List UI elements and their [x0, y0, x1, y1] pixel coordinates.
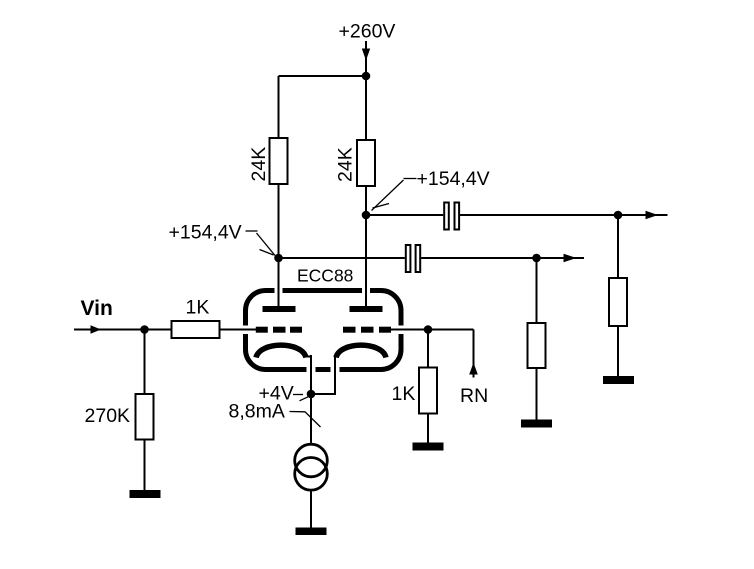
resistor 1K input body — [172, 321, 220, 338]
resistor 270K body — [136, 394, 154, 440]
envelope gap right grid wire — [396, 326, 406, 335]
wire right 24K branch upper — [365, 76, 367, 140]
capacitor C2 left plate — [406, 245, 411, 272]
capacitor C2 right plate — [416, 245, 421, 272]
wire right 24K branch lower to right anode — [365, 186, 367, 307]
leader +4V — [293, 394, 303, 396]
capacitor C1 right plate — [455, 203, 460, 230]
wire 1K cathode resistor lower — [427, 414, 429, 444]
ground 270K — [130, 490, 161, 498]
ground current source — [296, 528, 327, 536]
wire cathode node to current source — [310, 394, 312, 446]
wire output 2 right segment — [421, 257, 584, 259]
resistor 24K right body — [357, 140, 375, 186]
wire middle load resistor drop lower — [536, 368, 538, 420]
arrowhead RN up — [469, 363, 478, 375]
arrowhead output 1 — [646, 211, 659, 220]
wire left cathode tail connector — [303, 356, 311, 358]
envelope gap bottom right cathode tail — [331, 365, 340, 375]
wire 270K branch upper — [144, 330, 146, 395]
node input junction — [140, 325, 149, 334]
resistor 1K cathode body — [419, 368, 437, 414]
svg-text:RN: RN — [460, 385, 488, 407]
resistor middle load body — [528, 323, 546, 368]
resistor 24K left body — [270, 138, 288, 184]
wire 1K cathode resistor upper — [427, 330, 429, 369]
envelope gap bottom left cathode tail — [307, 365, 316, 375]
wire output 1 left segment — [366, 214, 443, 216]
wire right cathode tail — [311, 356, 335, 394]
leader +154,4V right — [372, 179, 417, 211]
right anode plate — [350, 306, 383, 312]
svg-text:+260V: +260V — [339, 21, 396, 43]
node cathode junction — [307, 390, 316, 399]
wire 270K branch lower — [144, 440, 146, 492]
wire left cathode tail — [310, 355, 312, 394]
ground right load — [603, 376, 634, 384]
left anode plate — [263, 306, 296, 312]
svg-text:24K: 24K — [248, 147, 270, 182]
current source I1 circle top — [295, 444, 328, 477]
svg-text:8,8mA: 8,8mA — [229, 401, 285, 423]
svg-text:24K: 24K — [335, 147, 357, 182]
svg-text:+154,4V: +154,4V — [417, 168, 490, 190]
wire left 24K branch lower to left anode — [278, 184, 280, 307]
node right anode junction — [362, 211, 371, 220]
envelope gap left grid wire — [241, 326, 251, 335]
node output 2 junction — [532, 254, 541, 263]
wire output 2 left segment — [279, 257, 405, 259]
arrowhead output 2 — [564, 254, 577, 263]
wire left 24K branch upper — [278, 76, 280, 139]
ground 1K cathode — [413, 443, 444, 451]
left grid dashes — [256, 327, 268, 333]
envelope gap top-right lead — [362, 286, 370, 295]
right cathode arc — [336, 345, 386, 357]
left cathode arc — [256, 345, 306, 357]
svg-text:Vin: Vin — [81, 297, 113, 320]
tube U1 envelope ECC88 — [246, 291, 402, 370]
leader 8,8mA — [290, 412, 321, 428]
wire RN vertical — [473, 330, 475, 378]
ground middle load — [521, 420, 552, 428]
wire current source to ground — [310, 489, 312, 528]
supply arrowhead down — [362, 49, 370, 61]
svg-text:+154,4V: +154,4V — [169, 222, 242, 244]
svg-text:1K: 1K — [392, 383, 416, 405]
wire input Vin — [74, 329, 256, 331]
wire right load resistor drop upper — [617, 215, 619, 278]
node left anode junction — [274, 254, 283, 263]
current source I1 circle bottom — [295, 458, 328, 491]
wire right grid to node RN — [391, 329, 474, 331]
node supply junction — [362, 72, 371, 81]
node right grid junction — [424, 325, 433, 334]
resistor right load body — [609, 278, 627, 326]
svg-text:270K: 270K — [85, 405, 131, 427]
svg-text:ECC88: ECC88 — [297, 266, 353, 286]
svg-text:1K: 1K — [186, 297, 210, 319]
wire right load resistor drop lower — [617, 326, 619, 377]
node output 1 junction — [614, 211, 623, 220]
wire output 1 right segment — [460, 214, 668, 216]
leader +154,4V left — [246, 231, 276, 256]
capacitor C1 left plate — [444, 203, 449, 230]
right grid dashes — [343, 327, 356, 333]
wire middle load resistor drop upper — [536, 258, 538, 323]
arrowhead input — [91, 325, 102, 334]
wire top rail +260V — [279, 75, 367, 77]
envelope gap top-left lead — [275, 286, 283, 295]
wire supply drop — [365, 41, 367, 76]
